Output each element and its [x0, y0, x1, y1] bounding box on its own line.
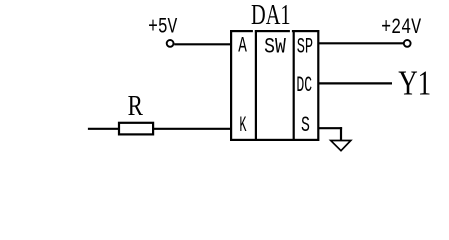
- svg-text:A: A: [238, 34, 247, 59]
- notch in top edge left of divider 2: [290, 30, 292, 33]
- svg-text:DC: DC: [296, 73, 312, 98]
- IC DA1 outline: [231, 31, 318, 140]
- svg-text:Y1: Y1: [398, 63, 431, 102]
- svg-text:K: K: [239, 113, 247, 138]
- wire pin DC to node Y1: [319, 82, 393, 84]
- wire pin S to ground, vertical: [340, 127, 342, 140]
- terminal +24V: [404, 40, 411, 47]
- svg-text:R: R: [128, 91, 144, 122]
- wire pin SP to +24V terminal: [319, 42, 404, 44]
- IC DA1 internal divider 2: [293, 30, 295, 141]
- wire pin S to ground, horizontal: [319, 127, 343, 129]
- svg-text:SP: SP: [297, 34, 313, 59]
- svg-text:S: S: [301, 113, 310, 138]
- notch in top edge left of divider 1: [253, 30, 255, 33]
- wire resistor R to pin K: [153, 128, 231, 130]
- svg-text:SW: SW: [264, 34, 286, 59]
- wire left input to resistor R: [88, 128, 119, 130]
- IC DA1 internal divider 1: [255, 30, 257, 141]
- svg-text:DA1: DA1: [251, 0, 291, 31]
- resistor R body: [119, 123, 153, 135]
- wire +5V terminal to pin A: [174, 43, 231, 45]
- svg-text:+5V: +5V: [148, 15, 178, 40]
- ground: [331, 141, 351, 151]
- terminal +5V: [167, 40, 174, 47]
- svg-text:+24V: +24V: [381, 15, 422, 40]
